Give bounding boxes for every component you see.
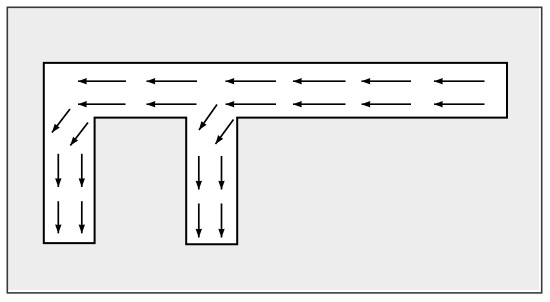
second row arrow 1 [78, 103, 126, 105]
middle leg upper arrow left [198, 156, 200, 190]
second row arrow 6 [434, 103, 485, 105]
second row arrow 2 [147, 103, 197, 105]
left leg upper arrow left [57, 154, 59, 187]
top row arrow 5 [362, 80, 412, 82]
second row arrow 4 [293, 103, 346, 105]
left leg upper arrow right [81, 154, 83, 187]
left corner diagonal arrow 2 [70, 123, 88, 146]
middle leg upper arrow right [221, 156, 223, 190]
top row arrow 6 [434, 80, 485, 82]
middle corner diagonal arrow 1 [199, 105, 217, 131]
middle corner diagonal arrow 2 [216, 120, 234, 145]
left corner diagonal arrow 1 [52, 109, 70, 133]
second row arrow 5 [362, 103, 412, 105]
left leg lower arrow right [81, 201, 83, 233]
top row arrow 2 [147, 80, 198, 82]
middle leg lower arrow left [198, 204, 200, 238]
top row arrow 3 [226, 80, 277, 82]
middle leg lower arrow right [221, 204, 223, 238]
second row arrow 3 [226, 103, 277, 105]
conductor shape (white bar with two legs) [44, 63, 507, 244]
left leg lower arrow left [57, 201, 59, 233]
top row arrow 1 [78, 80, 126, 82]
top row arrow 4 [293, 80, 346, 82]
